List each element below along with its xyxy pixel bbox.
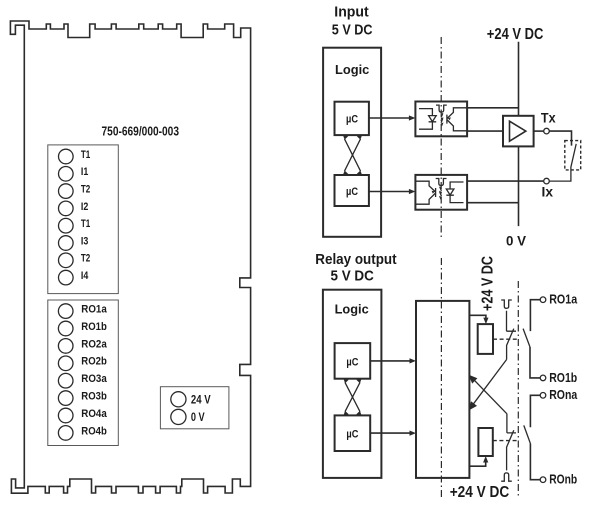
terminal I2 circle [59,201,74,216]
wire Ix line to OK2 [467,180,544,182]
microcontroller U4 box [335,415,371,451]
line driver amplifier [503,116,534,147]
microcontroller U2 box [335,175,369,206]
main contact K1 blade [523,329,530,347]
svg-text:Ix: Ix [542,184,554,200]
svg-text:5 V DC: 5 V DC [331,268,374,285]
terminal RO2b circle [58,356,73,371]
main contact K2 wire ROna [530,395,540,427]
wire U1 to optocoupler OK1 with arrow [369,117,411,119]
terminal T2 circle [59,184,74,199]
svg-text:+24 V DC: +24 V DC [487,26,544,43]
wire U4 to output driver with arrow [370,432,411,434]
ROna terminal circle [540,393,546,399]
wire driver to Tx terminal [534,130,544,132]
svg-text:T2: T2 [81,184,90,196]
ROnb terminal circle [540,477,546,483]
power feed terminal box [160,387,229,429]
feedback contact K2 actuator symbol [501,473,512,481]
svg-text:µC: µC [346,113,358,125]
terminal RO4a circle [58,408,73,423]
svg-text:Logic: Logic [335,302,369,317]
svg-text:I1: I1 [81,166,88,178]
svg-text:0 V: 0 V [506,233,527,249]
RO1b terminal circle [540,375,546,381]
svg-text:RO1b: RO1b [81,321,107,333]
svg-text:I3: I3 [81,235,88,247]
mechanical link K2 dashed [493,440,518,442]
isolation dash-dot line input circuit [440,37,442,240]
external sensor switch blade [549,144,576,181]
svg-text:RO3a: RO3a [81,373,107,385]
svg-text:5 V DC: 5 V DC [332,21,373,38]
wire OK2 to +24V rail [467,202,518,204]
svg-text:+24 V DC: +24 V DC [450,484,510,501]
svg-text:Input: Input [334,3,368,20]
wire OK1 to line driver [467,130,503,132]
main contact K2 blade [524,425,531,443]
svg-text:I2: I2 [81,201,88,213]
microcontroller U1 box [335,102,369,135]
terminal I1 circle [59,167,74,182]
svg-text:I4: I4 [81,270,89,282]
svg-text:ROna: ROna [549,387,578,402]
cross arrows between U1 and U2 [343,135,362,176]
relay coil K1 [478,324,493,354]
RO1a terminal circle [540,297,546,303]
external sensor dashed box [565,141,581,170]
logic box input circuit [323,48,381,237]
terminal RO1b circle [58,321,73,336]
svg-text:RO3b: RO3b [81,391,107,403]
optocoupler OK1 [415,102,467,137]
svg-text:+24 V DC: +24 V DC [480,256,497,311]
wire OK1 to +24V rail [467,107,518,109]
terminal RO1a circle [58,304,73,319]
svg-text:Tx: Tx [541,109,556,125]
svg-text:T2: T2 [81,253,90,265]
svg-text:Logic: Logic [335,62,369,77]
terminal RO3a circle [58,373,73,388]
terminal T2 circle second [59,253,74,268]
terminal block 2 box [48,300,119,446]
mechanical link K1 dashed [493,338,518,340]
wire U3 to output driver with arrow [370,360,411,362]
wire Tx to external sensor [549,131,571,146]
Tx terminal circle [544,128,550,134]
Ix terminal circle [544,178,550,184]
isolation dash-dot line 2 relay circuit [517,281,519,497]
terminal block 1 box [48,145,119,294]
main contact K1 wire RO1b [530,347,540,378]
svg-text:RO1a: RO1a [81,304,107,316]
feedback cross wire K2 to driver with arrow [474,380,507,414]
svg-text:T1: T1 [81,218,90,230]
svg-text:RO2b: RO2b [81,356,107,368]
feedback contact K2 [507,414,516,471]
relay coil K2 [478,428,492,456]
module outline 750-669 housing [10,21,250,493]
terminal RO4b circle [58,426,73,441]
svg-text:µC: µC [346,429,358,441]
+24V rail input circuit [518,42,520,226]
wire U2 to optocoupler OK2 with arrow [369,191,411,193]
microcontroller U3 box [335,343,371,379]
terminal RO2a circle [58,339,73,354]
terminal I3 circle [59,236,74,251]
svg-text:RO1b: RO1b [549,370,577,385]
svg-text:µC: µC [346,186,358,198]
svg-text:T1: T1 [81,149,90,161]
terminal I4 circle [59,270,74,285]
cross arrows between U3 and U4 [343,378,361,415]
svg-text:RO1a: RO1a [549,292,578,307]
main contact K1 wire RO1a [530,300,540,331]
svg-text:0 V: 0 V [191,410,205,424]
terminal RO3b circle [58,391,73,406]
feedback cross wire K1 to driver with arrow [474,360,507,404]
optocoupler OK2 [415,175,467,210]
svg-text:24 V: 24 V [191,392,211,406]
logic box relay circuit [323,290,382,478]
svg-text:RO4a: RO4a [81,408,107,420]
feedback contact K1 [507,311,517,360]
main contact K2 wire ROnb [530,444,540,480]
svg-text:RO4b: RO4b [81,425,107,437]
svg-text:750-669/000-003: 750-669/000-003 [102,125,180,139]
wire driver to relay coil K2 with up arrow [469,461,485,466]
svg-text:Relay output: Relay output [315,251,396,268]
terminal 24V circle [171,392,186,407]
wire driver to relay coil K1 with down arrow [469,315,486,319]
svg-text:ROnb: ROnb [549,472,577,487]
feedback contact K1 actuator symbol [501,300,512,308]
svg-text:RO2a: RO2a [81,338,107,350]
terminal 0V circle [171,409,186,424]
terminal T1 circle [59,149,74,164]
output driver block [416,301,469,478]
svg-text:µC: µC [346,356,358,368]
terminal T1 circle second [59,218,74,233]
isolation dash-dot line 1 relay circuit [440,258,442,498]
